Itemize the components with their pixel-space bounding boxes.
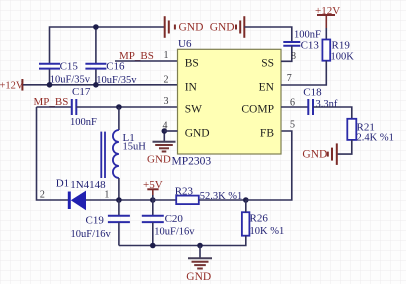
svg-text:U6: U6	[178, 38, 192, 50]
svg-text:4: 4	[163, 121, 168, 132]
wire pin 4 stub	[164, 130, 177, 132]
svg-text:10uF/16v: 10uF/16v	[71, 229, 112, 240]
wire MP_BS corner down to diode row	[37, 107, 69, 200]
wire C17 right to SW pin 3	[76, 106, 177, 108]
wire R19 bottom to EN pin 7	[281, 61, 326, 85]
svg-text:BS: BS	[185, 58, 199, 70]
svg-text:SS: SS	[261, 58, 274, 70]
wire C15 bottom lead	[49, 69, 51, 85]
svg-text:R26: R26	[250, 213, 269, 225]
wire R21 bottom to GND	[338, 140, 352, 154]
svg-text:100K: 100K	[331, 52, 355, 63]
wire BS pin 1	[115, 60, 178, 62]
svg-text:MP2303: MP2303	[172, 156, 212, 168]
wire diode to output node	[86, 199, 153, 201]
resistor R21	[347, 119, 356, 140]
capacitor C13	[283, 42, 300, 46]
wire COMP pin 6 to C18	[281, 106, 308, 108]
svg-text:100nF: 100nF	[70, 117, 97, 128]
node junction pin 4	[162, 128, 168, 134]
resistor R23	[176, 196, 199, 205]
node junction C20 bottom	[150, 243, 156, 249]
svg-text:GND: GND	[210, 22, 235, 34]
svg-text:1: 1	[104, 189, 109, 200]
node junction C15 on +12V rail	[47, 82, 53, 88]
svg-text:8: 8	[291, 51, 296, 62]
svg-text:GND: GND	[185, 128, 210, 140]
wire C16 top lead	[95, 27, 97, 64]
svg-text:1: 1	[164, 50, 169, 61]
wire C16 bottom lead	[95, 69, 97, 85]
wire R26 top lead	[245, 200, 247, 212]
svg-text:10K %1: 10K %1	[250, 226, 285, 237]
node junction C16 on +12V rail	[93, 82, 99, 88]
wire C13 bottom to SS pin 8	[281, 46, 292, 62]
wire L1 bottom to output node	[118, 178, 120, 200]
svg-text:R23: R23	[175, 185, 194, 197]
svg-text:15uH: 15uH	[123, 142, 147, 153]
capacitor C17	[72, 99, 77, 115]
node junction at C16 top	[93, 24, 99, 30]
svg-text:C13: C13	[301, 40, 320, 52]
svg-text:IN: IN	[185, 81, 198, 93]
wire SW row to C17 left	[37, 106, 72, 108]
svg-text:C15: C15	[60, 61, 79, 73]
capacitor C15	[39, 64, 60, 69]
svg-text:+12V: +12V	[0, 81, 24, 92]
svg-text:5: 5	[290, 119, 295, 130]
wire SW node down to L1	[118, 107, 120, 130]
capacitor C20	[152, 200, 154, 215]
resistor R26	[242, 212, 250, 236]
ground bottom-center (earth style)	[199, 246, 201, 258]
svg-text:3.3nf: 3.3nf	[316, 99, 338, 110]
capacitor C19	[118, 200, 120, 215]
svg-text:GND: GND	[147, 154, 171, 166]
svg-text:SW: SW	[185, 104, 202, 116]
svg-text:2.4K %1: 2.4K %1	[357, 132, 394, 143]
svg-text:R19: R19	[332, 40, 351, 52]
svg-text:GND: GND	[179, 22, 204, 34]
svg-text:7: 7	[287, 73, 292, 84]
node junction GND tap	[197, 243, 203, 249]
svg-text:COMP: COMP	[241, 104, 274, 116]
node junction +5V / C20	[150, 197, 156, 203]
wire +12V to R19	[325, 28, 327, 40]
svg-text:FB: FB	[260, 128, 274, 140]
wire R23 right to FB junction	[199, 199, 246, 201]
svg-text:10uF/35v: 10uF/35v	[50, 75, 91, 86]
wire top-right GND to C13	[244, 27, 291, 42]
wire top-left rail C15/C16 to GND	[50, 27, 165, 63]
svg-text:10uF/16v: 10uF/16v	[154, 227, 195, 238]
wire +12V rail to pin 2 IN	[23, 84, 178, 86]
inductor L1	[101, 130, 119, 178]
svg-text:GND: GND	[302, 149, 327, 161]
svg-text:C20: C20	[165, 213, 184, 225]
wire C18 right to R21 top	[313, 107, 352, 119]
svg-text:EN: EN	[259, 81, 275, 93]
svg-text:C18: C18	[303, 87, 322, 99]
svg-text:1N4148: 1N4148	[70, 179, 106, 191]
capacitor C18	[308, 99, 313, 115]
ground GND at pin 4 (earth style)	[163, 131, 165, 141]
svg-text:2: 2	[40, 189, 45, 200]
svg-text:D1: D1	[56, 178, 69, 190]
svg-text:10uF/35v: 10uF/35v	[96, 75, 137, 86]
svg-text:3: 3	[164, 96, 169, 107]
node junction output at L1/C19	[116, 197, 122, 203]
wire FB junction right and up to pin 5	[246, 131, 292, 200]
svg-text:C16: C16	[106, 61, 125, 73]
wire +5V node to R23	[153, 199, 176, 201]
resistor R19	[322, 40, 330, 61]
wire bottom ground rail	[119, 236, 246, 246]
node junction R23/R26/FB	[243, 197, 249, 203]
svg-text:2: 2	[164, 74, 169, 85]
svg-text:C19: C19	[86, 215, 105, 227]
capacitor C16	[85, 64, 106, 69]
IC U1 MP2303 body	[178, 49, 282, 154]
node junction SW	[116, 104, 122, 110]
svg-text:GND: GND	[186, 271, 211, 283]
svg-text:C17: C17	[72, 86, 91, 98]
ground top-left (bar style)	[165, 16, 175, 38]
